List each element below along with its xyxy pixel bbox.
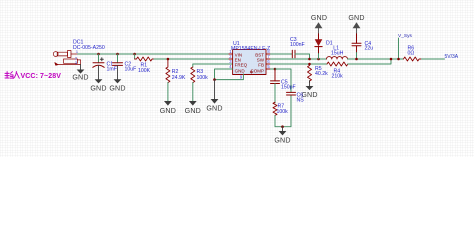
text 输入VCC — [5, 72, 19, 79]
capacitor C6 — [287, 92, 296, 95]
node (EN to R2) — [167, 58, 170, 61]
node (R4/out) — [390, 58, 393, 61]
svg-text:GND: GND — [206, 104, 222, 112]
wire comp bottom — [275, 95, 291, 127]
pad diamond — [250, 71, 252, 73]
ground (R3) — [185, 101, 201, 115]
svg-text:210k: 210k — [332, 74, 344, 80]
ground (C1) — [90, 79, 106, 92]
ground (jack) — [72, 65, 88, 82]
svg-text:GND: GND — [311, 14, 327, 22]
resistor R5 — [308, 64, 312, 83]
wire C3 to SW node — [295, 54, 310, 59]
node (C4/out) — [355, 58, 358, 61]
node (C3/SW) — [308, 58, 311, 61]
wire output — [422, 58, 445, 60]
ground (comp) — [274, 125, 290, 144]
wire V_Sys stub — [398, 38, 400, 59]
svg-text:0Ω: 0Ω — [408, 50, 415, 56]
svg-text:15uH: 15uH — [331, 51, 344, 57]
svg-text:COMP: COMP — [251, 69, 265, 74]
svg-text:V_Sys: V_Sys — [398, 33, 412, 39]
connector DC1 switch contact — [55, 59, 81, 65]
resistor R1 — [135, 54, 154, 61]
capacitor C5 — [271, 69, 280, 103]
svg-text:1: 1 — [76, 50, 78, 54]
ground (R5) — [301, 81, 317, 100]
ground (R2) — [160, 101, 176, 115]
svg-text:1mF: 1mF — [107, 67, 117, 73]
node (FB/R5) — [308, 63, 311, 66]
svg-text:40.2k: 40.2k — [315, 71, 328, 77]
wire COMP — [266, 68, 271, 70]
wire R3 to ground — [192, 83, 194, 101]
resistor R6 — [404, 57, 422, 61]
svg-text:GND: GND — [90, 84, 106, 92]
svg-text:100nF: 100nF — [290, 42, 305, 48]
capacitor C2 — [113, 54, 123, 79]
wire FB row — [266, 63, 271, 65]
svg-text:GND: GND — [235, 69, 246, 74]
wire FREQ to R3 — [193, 64, 233, 67]
svg-text:GND: GND — [109, 84, 125, 92]
ground (C2) — [109, 79, 125, 92]
ground flag (C4) — [348, 14, 364, 34]
svg-text:GND: GND — [185, 107, 201, 115]
resistor R7 — [273, 102, 277, 115]
svg-text:24.9K: 24.9K — [172, 75, 186, 81]
ground flag (D1) — [311, 14, 327, 34]
wire VIN rail — [78, 53, 229, 55]
svg-text:100K: 100K — [138, 68, 151, 74]
svg-text:FREQ: FREQ — [235, 62, 248, 67]
svg-text:GND: GND — [274, 136, 290, 144]
node (COMP) — [274, 68, 277, 71]
resistor R3 — [191, 67, 195, 83]
wire comp top — [275, 69, 291, 92]
capacitor C4 — [352, 34, 361, 59]
node (rail to C1) — [97, 53, 100, 56]
diode D1 — [315, 34, 323, 59]
node (V_Sys) — [397, 58, 400, 61]
connector DC1 barrel — [53, 51, 77, 58]
svg-text:GND: GND — [348, 14, 364, 22]
svg-text:GND: GND — [160, 107, 176, 115]
node (D1/SW) — [317, 58, 320, 61]
svg-text:100k: 100k — [277, 109, 289, 115]
wire R2 to ground — [167, 83, 169, 101]
inductor L1 — [327, 57, 348, 59]
svg-text:3: 3 — [75, 61, 77, 65]
node (rail to C2) — [116, 53, 119, 56]
op-amp U1 body — [233, 50, 266, 75]
resistor R4 — [327, 62, 348, 66]
svg-text:2: 2 — [75, 56, 77, 60]
wire BST — [266, 53, 271, 55]
svg-text:5V/3A: 5V/3A — [445, 54, 459, 60]
capacitor C3 — [292, 50, 295, 58]
resistor R2 — [166, 59, 170, 83]
svg-text:100k: 100k — [197, 75, 209, 81]
node (gnd junction) — [213, 78, 216, 81]
svg-text:MP1584EN-LF-Z: MP1584EN-LF-Z — [231, 46, 270, 52]
svg-text:22u: 22u — [365, 45, 374, 51]
wire GND pin to pad — [215, 69, 233, 80]
svg-text:GND: GND — [72, 74, 88, 82]
ground (U1) — [206, 80, 222, 113]
svg-text:D1: D1 — [326, 40, 333, 46]
node (rail to R1) — [133, 53, 136, 56]
svg-text:VCC: 7~28V: VCC: 7~28V — [21, 73, 62, 80]
svg-text:NS: NS — [297, 97, 305, 103]
svg-text:FB: FB — [258, 62, 264, 67]
wire R4 to output — [348, 59, 391, 64]
wire L1 to output — [348, 58, 404, 60]
wire SW rail — [266, 58, 271, 60]
svg-text:10uF: 10uF — [125, 67, 137, 73]
svg-text:GND: GND — [301, 91, 317, 99]
capacitor C1 — [93, 54, 104, 79]
wire EN row — [154, 58, 229, 60]
svg-text:150pF: 150pF — [281, 85, 296, 91]
